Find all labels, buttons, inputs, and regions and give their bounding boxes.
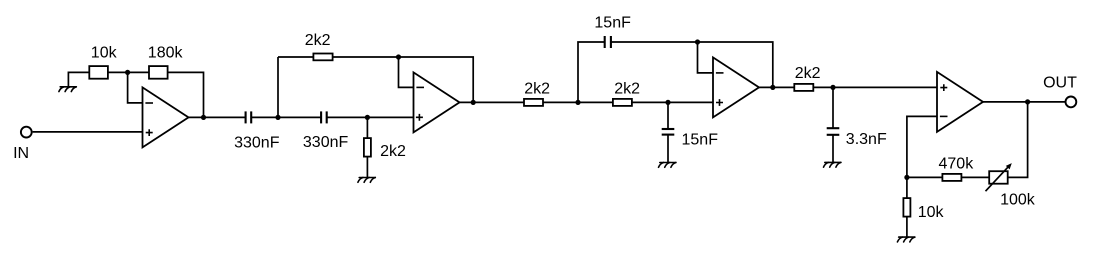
wire node to 2k2 shunt bbox=[366, 117, 368, 138]
svg-text:180k: 180k bbox=[148, 44, 184, 61]
op-amp U4 bbox=[937, 72, 983, 132]
ground G5 bbox=[897, 237, 914, 242]
wire U4 output to OUT bbox=[983, 101, 1066, 103]
wire node J to U4 - input bbox=[907, 116, 937, 177]
wire 10k to ground bbox=[906, 217, 908, 238]
wire 2k2 to corner above U2 output bbox=[333, 57, 474, 102]
resistor 10k bbox=[89, 66, 108, 79]
wire node B up to feedback bbox=[277, 57, 279, 117]
capacitor 15nF shunt bbox=[662, 129, 675, 135]
wire R5 to U4 + input bbox=[813, 86, 937, 88]
wire U3 output to R5 bbox=[759, 86, 794, 88]
wire 180k to U1 output bbox=[168, 72, 204, 117]
resistor 2k2 feedback bbox=[313, 54, 332, 61]
svg-text:OUT: OUT bbox=[1043, 75, 1077, 92]
capacitor 330nF C2 bbox=[321, 111, 327, 123]
node E bbox=[575, 100, 580, 105]
resistor 10k shunt bbox=[903, 198, 910, 217]
resistor 180k bbox=[149, 66, 168, 79]
node G bbox=[695, 39, 700, 44]
wire U2 output to R3 bbox=[460, 101, 524, 103]
wire node E up to C15 bbox=[578, 42, 605, 102]
wire node A to U1 - input bbox=[128, 72, 143, 103]
node U4 out bbox=[1025, 99, 1030, 104]
svg-text:470k: 470k bbox=[939, 155, 975, 172]
wire node J to 10k bbox=[906, 177, 908, 198]
node J bbox=[904, 175, 909, 180]
ground G3 bbox=[659, 163, 676, 168]
svg-text:10k: 10k bbox=[918, 204, 945, 221]
wire feedback to R2k2 bbox=[278, 56, 313, 58]
resistor 2k2 shunt bbox=[364, 138, 371, 157]
wire node C to U2 - input bbox=[399, 57, 414, 87]
wire node G2 to C3.3 bbox=[832, 87, 834, 128]
wire C15 to corner above U3 output bbox=[611, 42, 773, 87]
node shunt R bbox=[365, 115, 370, 120]
ground G4 bbox=[824, 162, 841, 167]
wire node B to C2 bbox=[278, 116, 321, 118]
wire 2k2 shunt to ground bbox=[366, 157, 368, 178]
wire R3 to R4 bbox=[543, 101, 613, 103]
svg-text:2k2: 2k2 bbox=[305, 32, 331, 49]
capacitor 330nF C1 bbox=[246, 111, 252, 123]
wire U1 output to C1 bbox=[189, 116, 246, 118]
wire 470k to node J bbox=[907, 176, 943, 178]
ground G2 bbox=[358, 178, 375, 183]
wire node G to U3 - input bbox=[698, 42, 714, 73]
node C bbox=[396, 54, 401, 59]
wire U4 output down to pot bbox=[1008, 102, 1028, 177]
op-amp U2 bbox=[414, 72, 460, 132]
capacitor 15nF top bbox=[605, 36, 611, 48]
terminal IN bbox=[21, 127, 32, 138]
svg-text:2k2: 2k2 bbox=[795, 65, 821, 82]
node U1 out bbox=[201, 115, 206, 120]
wire pot to 470k bbox=[961, 176, 989, 178]
svg-text:15nF: 15nF bbox=[594, 15, 631, 32]
svg-text:330nF: 330nF bbox=[234, 134, 280, 151]
wire C2 to U2 + input bbox=[327, 116, 414, 118]
terminal OUT bbox=[1066, 97, 1077, 108]
wire IN to U1 + input bbox=[33, 131, 143, 133]
svg-text:2k2: 2k2 bbox=[614, 81, 640, 98]
node U3 out bbox=[770, 85, 775, 90]
wire C1 to node B bbox=[251, 116, 278, 118]
wire node F to C15 shunt bbox=[667, 102, 669, 129]
node B bbox=[275, 115, 280, 120]
svg-text:330nF: 330nF bbox=[303, 134, 349, 151]
svg-text:10k: 10k bbox=[91, 44, 118, 61]
op-amp U3 bbox=[713, 57, 759, 117]
resistor 2k2 output bbox=[794, 84, 813, 91]
svg-text:2k2: 2k2 bbox=[380, 143, 406, 160]
svg-text:2k2: 2k2 bbox=[524, 81, 550, 98]
capacitor 3.3nF bbox=[827, 128, 840, 135]
resistor 2k2 series B bbox=[613, 99, 632, 106]
svg-text:100k: 100k bbox=[1000, 191, 1036, 208]
svg-text:3.3nF: 3.3nF bbox=[846, 131, 887, 148]
wire 10k to ground bbox=[68, 72, 89, 86]
op-amp U1 bbox=[143, 87, 189, 147]
ground G1 bbox=[59, 87, 76, 92]
wire C15 shunt to ground bbox=[667, 135, 669, 163]
node F bbox=[665, 100, 670, 105]
svg-text:15nF: 15nF bbox=[682, 131, 719, 148]
wire C3.3 to ground bbox=[832, 135, 834, 163]
node A bbox=[125, 70, 130, 75]
node U2 out bbox=[471, 100, 476, 105]
svg-text:IN: IN bbox=[13, 145, 29, 162]
wire 10k to 180k bbox=[108, 71, 149, 73]
resistor 2k2 series A bbox=[524, 99, 543, 106]
node G2 bbox=[830, 85, 835, 90]
wire R4 to U3 + input bbox=[632, 101, 713, 103]
resistor 470k bbox=[942, 174, 961, 181]
potentiometer 100k bbox=[986, 163, 1012, 191]
